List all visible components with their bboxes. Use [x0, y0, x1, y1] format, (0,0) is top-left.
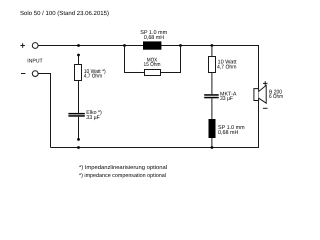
wire below speaker and bottom rail	[51, 101, 259, 148]
resistor MOX 15 Ohm (parallel to coil)	[145, 70, 161, 76]
inductor SP 1.0 mm 0,68 mH (series, on top rail)	[143, 41, 161, 49]
wire lowpass branch bottom stub	[211, 138, 213, 148]
plus input marker	[20, 43, 25, 48]
node MOX loop left junction	[123, 44, 126, 47]
speaker plus marker	[263, 81, 268, 85]
svg-text:INPUT: INPUT	[27, 58, 43, 64]
svg-text:4,7 Ohm: 4,7 Ohm	[84, 74, 103, 80]
node optional branch upper stub dot	[77, 54, 80, 57]
svg-text:4,7 Ohm: 4,7 Ohm	[217, 65, 237, 71]
wire top rail and drop to speaker	[38, 46, 258, 89]
resistor 10 Watt 4,7 Ohm (optional branch)	[75, 65, 82, 81]
svg-text:0,68 mH: 0,68 mH	[144, 35, 164, 41]
input terminal -	[32, 71, 38, 77]
node MOX loop right junction	[179, 44, 182, 47]
node lowpass branch top junction	[211, 44, 214, 47]
svg-text:33 µF: 33 µF	[220, 96, 234, 102]
svg-text:15 Ohm: 15 Ohm	[144, 62, 161, 68]
capacitor Elko 33 uF (optional branch)	[68, 113, 84, 115]
svg-text:*) impedance compensation opti: *) impedance compensation optional	[79, 173, 166, 179]
speaker B 200 6 Ohm	[254, 85, 266, 103]
wire optional branch middle	[78, 81, 80, 113]
wire MOX loop right	[161, 46, 181, 73]
svg-text:*) Impedanzlinearisierung opti: *) Impedanzlinearisierung optional	[79, 165, 167, 171]
wire optional branch lower	[78, 117, 80, 140]
node lowpass branch bottom junction	[211, 146, 214, 149]
inductor SP 1.0 mm 0,68 mH (lowpass branch)	[209, 119, 216, 138]
svg-text:33 µF: 33 µF	[86, 115, 100, 121]
wire minus lead	[38, 74, 50, 148]
wire lowpass branch top stub	[211, 46, 213, 57]
node optional branch lower stub dot	[77, 138, 80, 141]
wire lowpass branch between capacitor and coil	[211, 98, 213, 119]
wire optional branch upper stub	[78, 55, 80, 65]
svg-text:Solo 50 / 100 (Stand 23.06.201: Solo 50 / 100 (Stand 23.06.2015)	[20, 10, 109, 17]
svg-text:0,68 mH: 0,68 mH	[218, 130, 238, 136]
speaker minus marker	[263, 107, 268, 109]
minus input marker	[21, 73, 25, 75]
resistor 10 Watt 4,7 Ohm (lowpass branch)	[209, 57, 216, 73]
capacitor MKT-A 33 uF	[204, 94, 219, 96]
input terminal +	[32, 43, 38, 49]
node optional branch bottom rail junction	[77, 146, 80, 149]
svg-text:6 Ohm: 6 Ohm	[269, 94, 283, 100]
node optional branch top rail junction	[77, 44, 80, 47]
wire lowpass branch between resistor and capacitor	[211, 73, 213, 95]
wire MOX loop left	[125, 46, 145, 73]
